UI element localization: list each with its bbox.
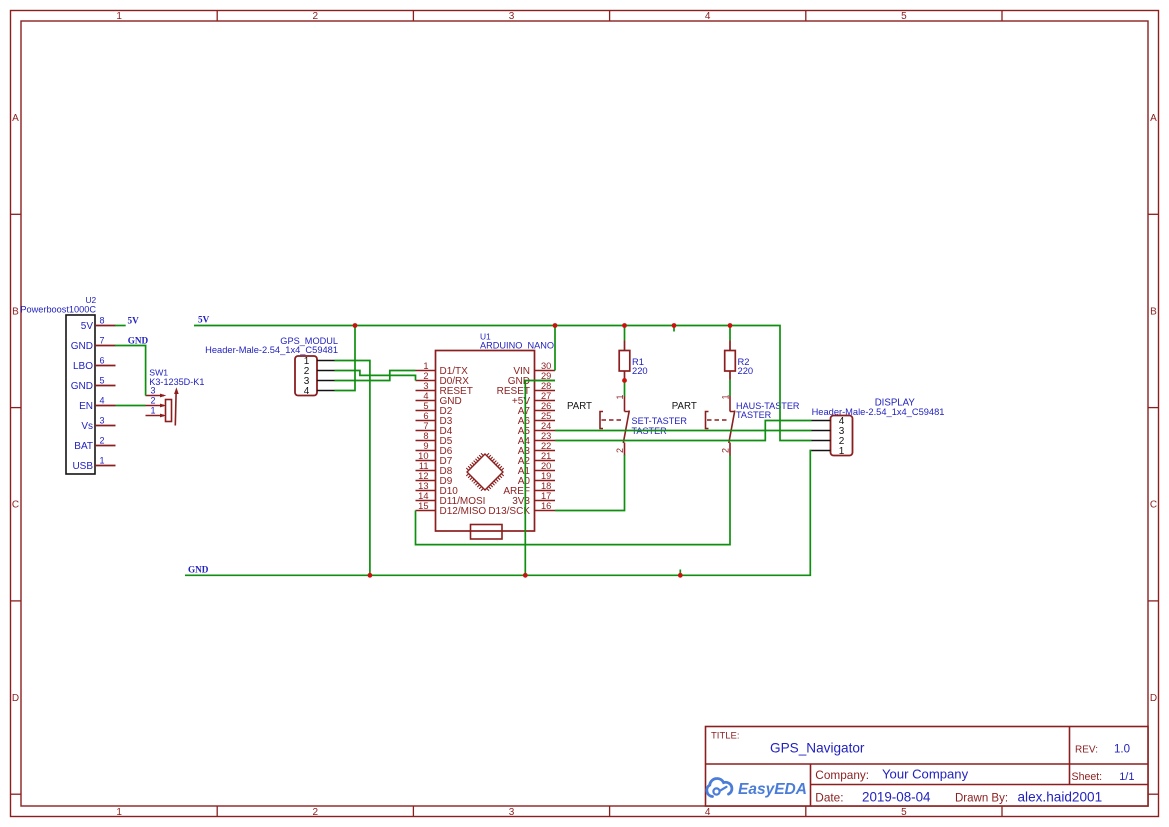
svg-text:EasyEDA: EasyEDA xyxy=(738,781,807,798)
svg-text:20: 20 xyxy=(541,461,551,471)
svg-text:BAT: BAT xyxy=(74,441,93,452)
connector GPS_MODUL header xyxy=(205,336,338,397)
svg-text:D13/SCK: D13/SCK xyxy=(488,506,530,517)
svg-text:ARDUINO_NANO: ARDUINO_NANO xyxy=(480,341,554,351)
svg-text:Date:: Date: xyxy=(815,791,843,805)
svg-text:2: 2 xyxy=(313,807,319,818)
svg-text:K3-1235D-K1: K3-1235D-K1 xyxy=(149,377,204,387)
svg-text:3: 3 xyxy=(423,381,428,391)
svg-text:SW1: SW1 xyxy=(149,368,168,378)
svg-text:REV:: REV: xyxy=(1075,745,1098,756)
connector DISPLAY header xyxy=(812,398,945,458)
svg-text:4: 4 xyxy=(423,391,428,401)
svg-text:D: D xyxy=(12,693,19,704)
svg-text:4: 4 xyxy=(705,11,711,22)
wire GND rail to DISPLAY pin1 xyxy=(185,451,812,576)
svg-text:3: 3 xyxy=(151,386,156,396)
wire 5V stub xyxy=(673,326,675,332)
resistor R2 220 xyxy=(725,341,753,380)
svg-text:1: 1 xyxy=(721,394,731,399)
svg-text:25: 25 xyxy=(541,411,551,421)
label net 5V rail xyxy=(198,315,210,325)
wire U1 D13 pin16 to SET-TASTER pin2 xyxy=(555,455,625,511)
label net GND at U2 xyxy=(128,336,149,346)
svg-text:17: 17 xyxy=(541,491,551,501)
label PART (HAUS-TASTER prefix) xyxy=(672,401,697,412)
svg-text:B: B xyxy=(1150,307,1157,318)
wire 5V to R1 xyxy=(624,326,626,341)
svg-text:C: C xyxy=(1150,500,1157,511)
svg-text:220: 220 xyxy=(632,365,648,376)
svg-text:B: B xyxy=(12,307,19,318)
svg-text:2: 2 xyxy=(615,448,625,453)
wire U1 D12 pin15 to HAUS-TASTER pin2 xyxy=(416,455,731,545)
wire GPS pin1 to GND xyxy=(335,361,370,576)
svg-text:22: 22 xyxy=(541,441,551,451)
svg-text:PART: PART xyxy=(672,401,697,412)
svg-text:1: 1 xyxy=(116,807,122,818)
label PART (SET-TASTER prefix) xyxy=(567,401,592,412)
svg-text:1: 1 xyxy=(116,11,122,22)
svg-text:Your Company: Your Company xyxy=(882,767,969,782)
svg-text:D12/MISO: D12/MISO xyxy=(440,506,487,517)
svg-text:Powerboost1000C: Powerboost1000C xyxy=(20,305,96,315)
wire GPS pin4 to 5V xyxy=(335,326,356,391)
svg-text:1: 1 xyxy=(100,455,105,465)
svg-text:Sheet:: Sheet: xyxy=(1072,771,1103,783)
svg-text:alex.haid2001: alex.haid2001 xyxy=(1018,790,1103,805)
IC U2 Powerboost1000C xyxy=(20,295,115,474)
MCU U1 ARDUINO_NANO xyxy=(416,332,556,540)
wire U1 GND pin29 to GND rail xyxy=(525,381,555,576)
wire R1 to SET-TASTER pin1 xyxy=(624,380,626,397)
svg-text:15: 15 xyxy=(418,501,428,511)
svg-text:1: 1 xyxy=(839,446,845,457)
svg-text:5: 5 xyxy=(423,401,428,411)
wire GPS pin2 to U1 D0/RX xyxy=(335,371,416,381)
svg-text:TASTER: TASTER xyxy=(736,410,772,420)
svg-text:GND: GND xyxy=(188,565,209,575)
wire U2 EN to SW1 pin2 xyxy=(116,405,146,407)
svg-text:8: 8 xyxy=(423,431,428,441)
svg-text:SET-TASTER: SET-TASTER xyxy=(632,416,688,426)
svg-text:6: 6 xyxy=(100,355,105,365)
resistor R1 220 xyxy=(619,341,647,380)
wire 5V to R2 xyxy=(729,326,731,341)
svg-text:2: 2 xyxy=(100,435,105,445)
svg-text:3: 3 xyxy=(509,11,515,22)
label net GND rail xyxy=(188,565,209,575)
svg-text:D: D xyxy=(1150,693,1157,704)
svg-text:GPS_Navigator: GPS_Navigator xyxy=(770,741,865,756)
wire U2 5V stub wire xyxy=(115,325,126,327)
pushbutton HAUS-TASTER xyxy=(706,394,800,455)
svg-text:Company:: Company: xyxy=(815,768,869,782)
svg-text:GND: GND xyxy=(71,381,93,392)
svg-text:1: 1 xyxy=(151,406,156,416)
svg-text:10: 10 xyxy=(418,451,428,461)
svg-text:EN: EN xyxy=(79,401,93,412)
svg-text:1: 1 xyxy=(615,394,625,399)
svg-text:2: 2 xyxy=(313,11,319,22)
junction dots xyxy=(353,323,733,578)
label net 5V at U2 xyxy=(128,316,140,326)
svg-text:5V: 5V xyxy=(81,321,94,332)
svg-text:12: 12 xyxy=(418,471,428,481)
svg-text:13: 13 xyxy=(418,481,428,491)
title block xyxy=(706,727,1149,807)
svg-text:5V: 5V xyxy=(128,316,140,326)
svg-text:2: 2 xyxy=(423,371,428,381)
svg-text:16: 16 xyxy=(541,501,551,511)
svg-text:3: 3 xyxy=(509,807,515,818)
svg-text:8: 8 xyxy=(100,315,105,325)
svg-text:6: 6 xyxy=(423,411,428,421)
svg-text:TITLE:: TITLE: xyxy=(711,731,740,742)
svg-text:1: 1 xyxy=(423,361,428,371)
svg-text:11: 11 xyxy=(419,461,429,471)
svg-text:Header-Male-2.54_1x4_C59481: Header-Male-2.54_1x4_C59481 xyxy=(205,345,338,355)
EasyEDA logo xyxy=(707,778,807,798)
svg-text:2: 2 xyxy=(151,396,156,406)
svg-text:30: 30 xyxy=(541,361,551,371)
svg-text:A: A xyxy=(12,113,19,124)
svg-text:29: 29 xyxy=(541,371,551,381)
wire 5V rail to DISPLAY pin2 xyxy=(194,326,812,441)
wire 5V to U1 VIN xyxy=(554,326,556,371)
svg-text:26: 26 xyxy=(541,401,551,411)
svg-text:4: 4 xyxy=(100,395,105,405)
pushbutton SET-TASTER xyxy=(600,394,687,455)
svg-text:7: 7 xyxy=(100,335,105,345)
wire R2 to HAUS-TASTER pin1 xyxy=(729,380,731,397)
wire U2 GND to SW1 pin3 xyxy=(115,346,146,396)
svg-text:Drawn By:: Drawn By: xyxy=(955,793,1008,805)
svg-text:24: 24 xyxy=(541,421,551,431)
svg-text:1/1: 1/1 xyxy=(1119,771,1134,783)
svg-text:GND: GND xyxy=(71,341,93,352)
svg-text:23: 23 xyxy=(541,431,551,441)
svg-text:5: 5 xyxy=(100,375,105,385)
svg-text:5V: 5V xyxy=(198,315,210,325)
svg-text:7: 7 xyxy=(423,421,428,431)
svg-text:Vs: Vs xyxy=(81,421,93,432)
svg-text:3: 3 xyxy=(100,415,105,425)
svg-text:27: 27 xyxy=(541,391,551,401)
switch SW1 K3-1235D-K1 xyxy=(146,368,205,426)
svg-text:220: 220 xyxy=(738,365,754,376)
svg-text:A: A xyxy=(1150,113,1157,124)
wire U1 A5 to DISPLAY pin3 xyxy=(555,430,812,432)
svg-text:GND: GND xyxy=(128,336,149,346)
wire GPS pin3 to U1 D1/TX xyxy=(335,371,416,381)
svg-text:2019-08-04: 2019-08-04 xyxy=(862,790,931,805)
svg-text:19: 19 xyxy=(541,471,551,481)
svg-text:18: 18 xyxy=(541,481,551,491)
svg-text:14: 14 xyxy=(418,491,428,501)
svg-text:5: 5 xyxy=(901,11,907,22)
svg-text:21: 21 xyxy=(541,451,551,461)
svg-text:28: 28 xyxy=(541,381,551,391)
svg-text:USB: USB xyxy=(72,461,93,472)
svg-text:2: 2 xyxy=(721,448,731,453)
wire U1 A4 to DISPLAY pin4 xyxy=(555,421,812,441)
svg-text:1.0: 1.0 xyxy=(1114,744,1130,756)
svg-text:PART: PART xyxy=(567,401,592,412)
svg-text:9: 9 xyxy=(423,441,428,451)
svg-text:5: 5 xyxy=(901,807,907,818)
svg-text:4: 4 xyxy=(705,807,711,818)
svg-text:U2: U2 xyxy=(86,295,97,305)
wire GND stub xyxy=(679,570,681,576)
svg-text:4: 4 xyxy=(304,386,310,397)
svg-text:C: C xyxy=(12,500,19,511)
svg-text:LBO: LBO xyxy=(73,361,93,372)
